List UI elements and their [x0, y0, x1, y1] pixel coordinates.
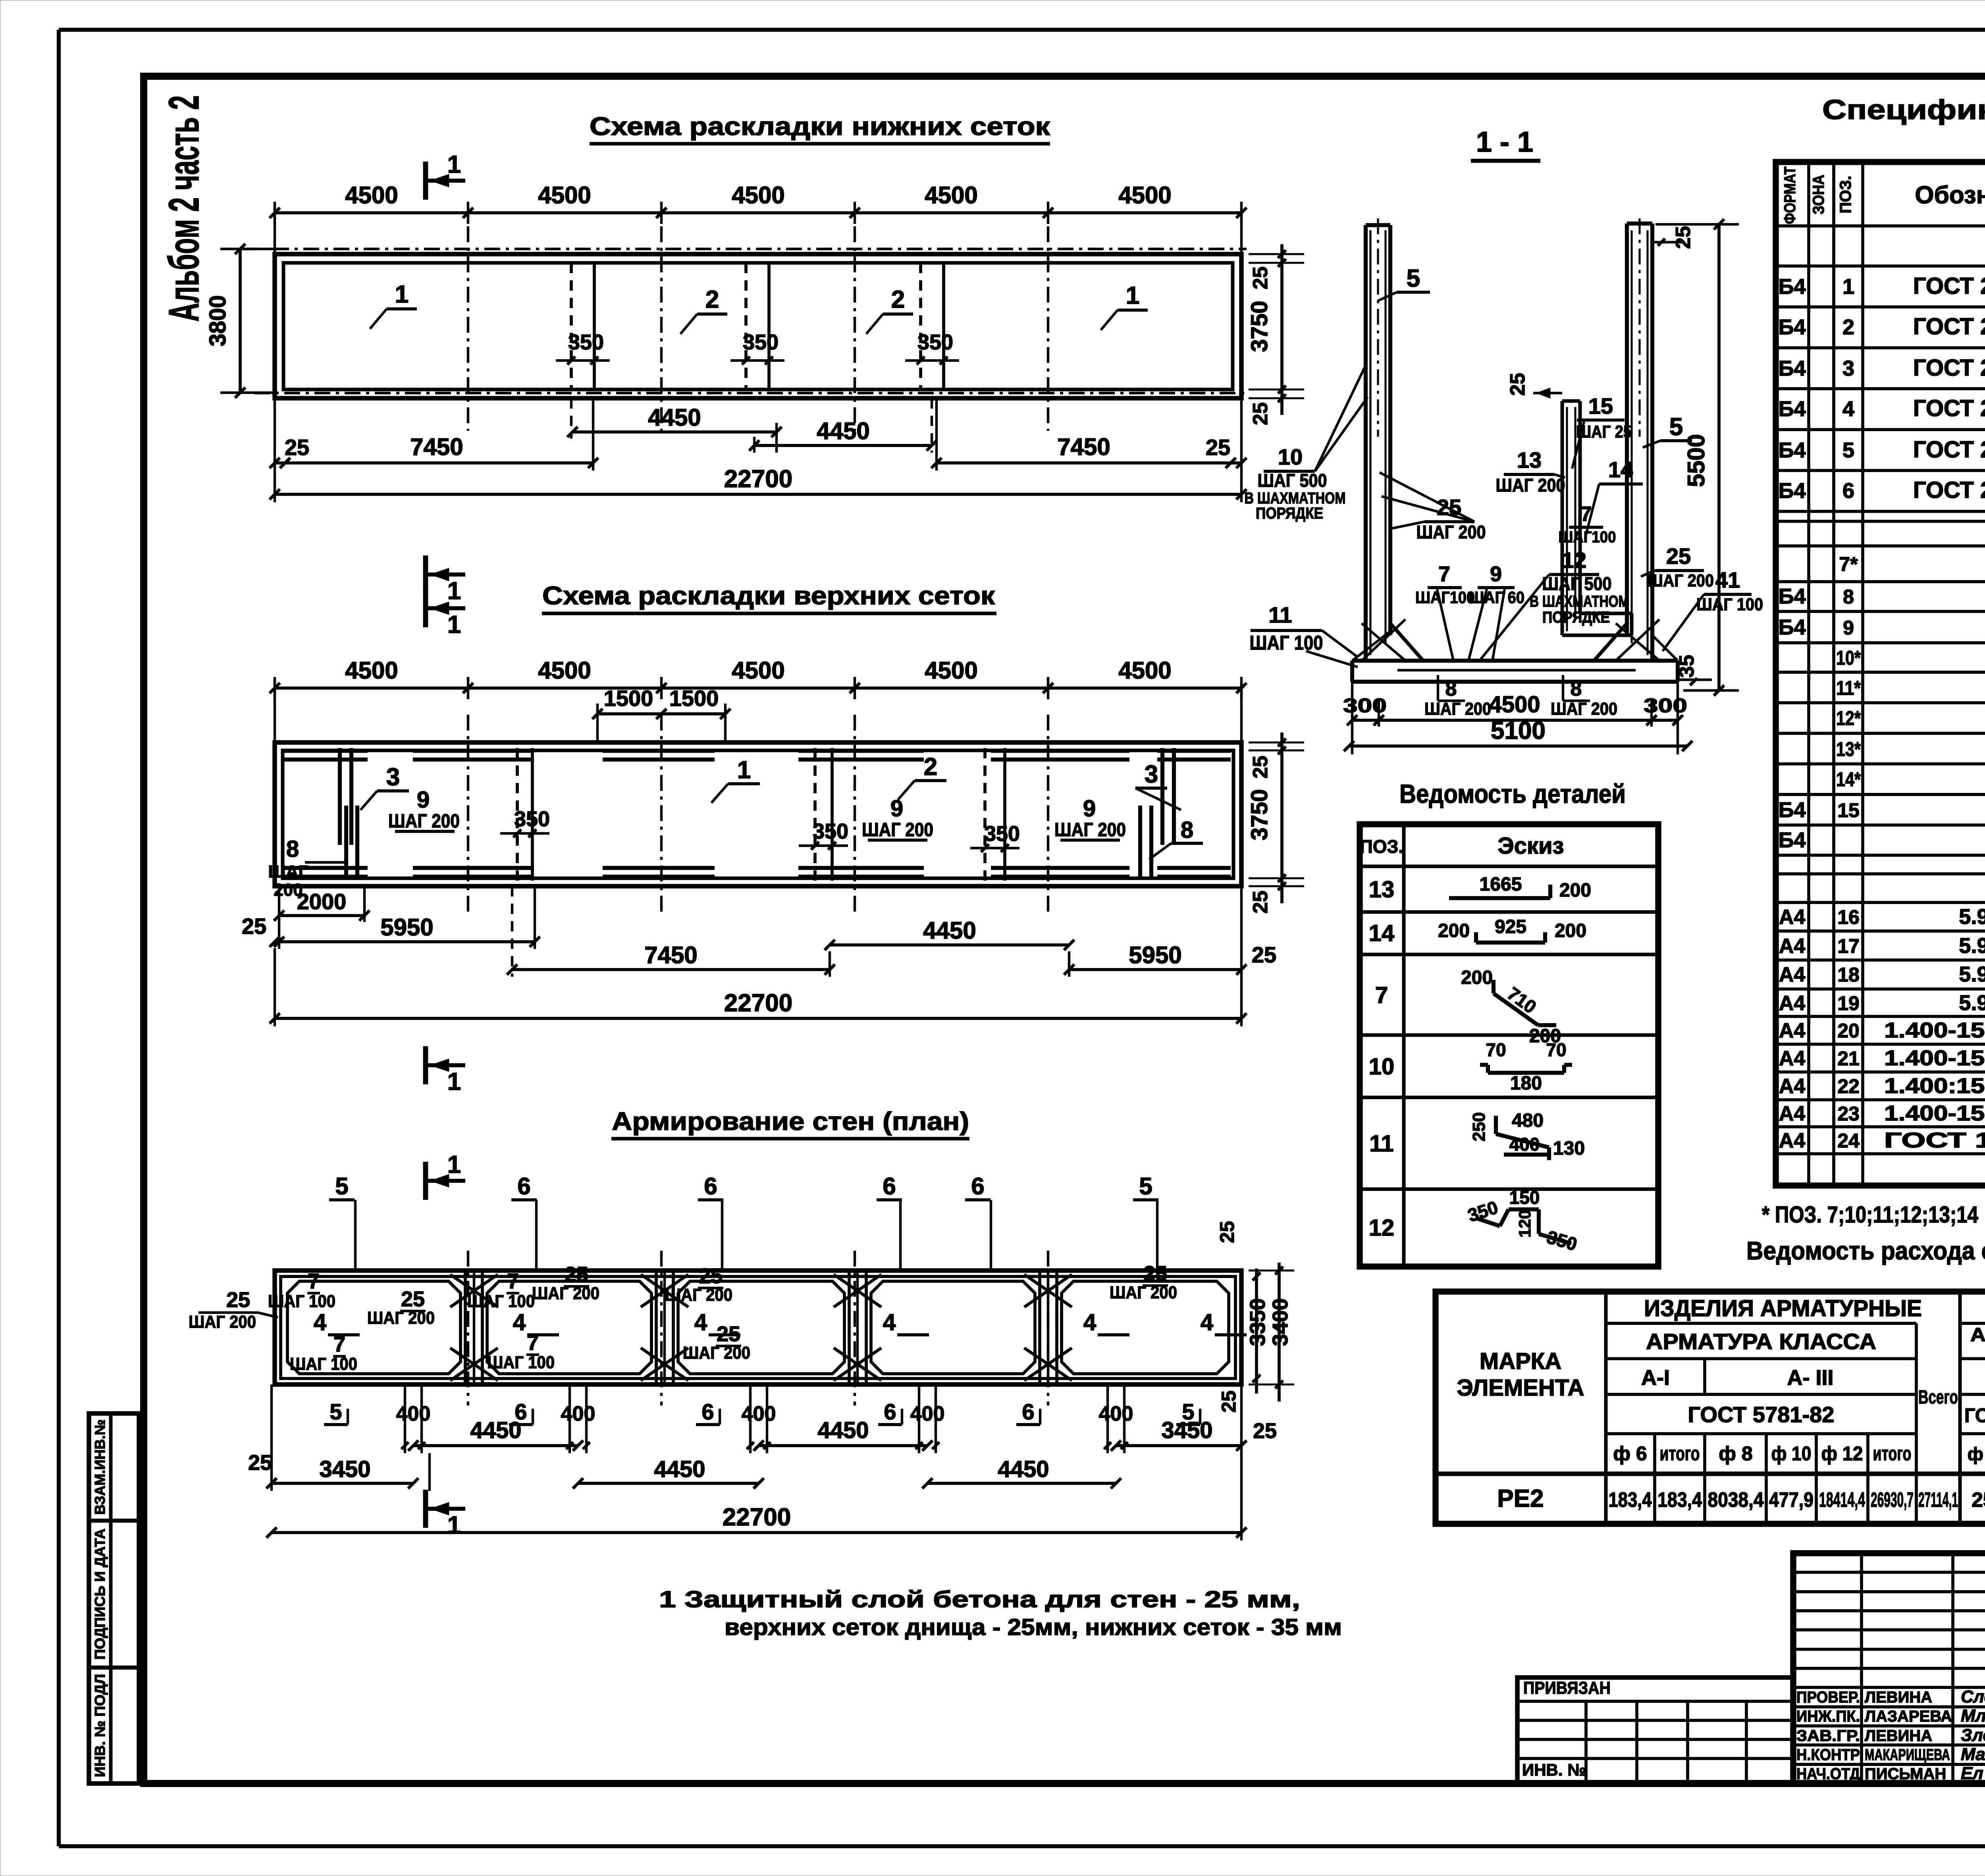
- svg-text:ЛЕВИНА: ЛЕВИНА: [1865, 1689, 1932, 1706]
- svg-text:350: 350: [568, 330, 604, 354]
- svg-text:25: 25: [1666, 544, 1691, 569]
- svg-text:4: 4: [883, 1309, 896, 1335]
- svg-text:итого: итого: [1660, 1442, 1700, 1465]
- svg-text:ШАГ 100: ШАГ 100: [290, 1354, 357, 1374]
- svg-text:8038,4: 8038,4: [1708, 1488, 1764, 1512]
- svg-text:4: 4: [314, 1309, 326, 1335]
- svg-text:А4: А4: [1779, 1102, 1806, 1125]
- svg-text:3400: 3400: [1268, 1298, 1292, 1346]
- svg-text:ПОДПИСЬ И ДАТА: ПОДПИСЬ И ДАТА: [92, 1529, 108, 1660]
- svg-text:РЕ2: РЕ2: [1497, 1485, 1544, 1512]
- svg-text:ШАГ 100: ШАГ 100: [487, 1353, 555, 1372]
- svg-text:11: 11: [1369, 1131, 1393, 1157]
- svg-text:183,4: 183,4: [1657, 1488, 1702, 1512]
- svg-text:МАКАРИЩЕВА: МАКАРИЩЕВА: [1865, 1746, 1950, 1764]
- svg-text:ФОРМАТ: ФОРМАТ: [1781, 167, 1799, 224]
- svg-text:ШАГ100: ШАГ100: [1415, 588, 1475, 607]
- svg-text:350: 350: [813, 819, 848, 843]
- svg-text:Б4: Б4: [1779, 615, 1806, 639]
- svg-text:22700: 22700: [724, 989, 792, 1017]
- svg-text:8: 8: [286, 836, 299, 862]
- svg-text:15: 15: [1837, 799, 1860, 821]
- svg-text:ф 6: ф 6: [1613, 1442, 1647, 1465]
- svg-text:20: 20: [1837, 1020, 1860, 1042]
- svg-text:25: 25: [1252, 942, 1276, 967]
- svg-text:200: 200: [1438, 920, 1470, 941]
- svg-text:7: 7: [308, 1269, 320, 1293]
- svg-text:70: 70: [1486, 1039, 1506, 1060]
- svg-text:ГОСТ 5781-82: ГОСТ 5781-82: [1964, 1404, 1985, 1427]
- svg-text:6: 6: [704, 1173, 717, 1199]
- svg-text:400: 400: [742, 1402, 776, 1425]
- svg-text:ГОСТ 23279-85: ГОСТ 23279-85: [1913, 477, 1985, 503]
- svg-text:18414,4: 18414,4: [1819, 1488, 1865, 1512]
- svg-text:8: 8: [1181, 817, 1193, 843]
- svg-text:1: 1: [395, 281, 409, 308]
- svg-text:5.900-2: 5.900-2: [1959, 905, 1985, 929]
- svg-text:23: 23: [1837, 1103, 1860, 1125]
- svg-text:ШАГ 200: ШАГ 200: [388, 811, 460, 832]
- svg-text:А4: А4: [1779, 906, 1806, 929]
- svg-text:3350: 3350: [1246, 1298, 1270, 1346]
- svg-text:ШАГ 500: ШАГ 500: [1258, 470, 1327, 491]
- svg-text:5: 5: [335, 1173, 348, 1199]
- svg-text:9: 9: [1490, 562, 1502, 586]
- svg-text:25: 25: [1249, 266, 1272, 289]
- svg-text:200: 200: [1555, 920, 1586, 941]
- svg-text:1: 1: [1126, 282, 1139, 309]
- svg-text:1500: 1500: [669, 686, 719, 711]
- svg-text:25: 25: [1249, 756, 1272, 779]
- svg-text:25: 25: [1206, 435, 1230, 460]
- svg-text:4450: 4450: [817, 418, 869, 444]
- svg-text:925: 925: [1495, 916, 1526, 937]
- svg-text:Спецификация к монолитной емко: Спецификация к монолитной емкости РЕ2: [1822, 94, 1985, 125]
- svg-text:ГОСТ 23279-85: ГОСТ 23279-85: [1913, 395, 1985, 421]
- svg-text:1.400:15.81.120-41: 1.400:15.81.120-41: [1884, 1074, 1985, 1098]
- svg-text:25: 25: [248, 1451, 272, 1475]
- svg-text:АРМАТУРА КЛАССА: АРМАТУРА КЛАССА: [1646, 1329, 1876, 1354]
- svg-text:ШАГ: ШАГ: [268, 862, 308, 881]
- svg-text:5.900-2: 5.900-2: [1959, 934, 1985, 958]
- svg-text:25: 25: [1253, 1419, 1277, 1443]
- svg-text:26930,7: 26930,7: [1871, 1488, 1914, 1512]
- svg-text:ШАГ 100: ШАГ 100: [1696, 595, 1763, 614]
- svg-text:ШАГ 100: ШАГ 100: [268, 1292, 335, 1311]
- svg-text:ПОЗ.: ПОЗ.: [1837, 176, 1854, 214]
- svg-text:ШАГ 200: ШАГ 200: [367, 1308, 435, 1328]
- svg-text:4500: 4500: [1118, 657, 1171, 684]
- svg-text:25: 25: [565, 1263, 588, 1286]
- svg-text:А4: А4: [1779, 1075, 1806, 1098]
- svg-text:5: 5: [1407, 265, 1420, 292]
- svg-text:ШАГ100: ШАГ100: [1559, 528, 1616, 546]
- svg-text:130: 130: [1553, 1138, 1585, 1159]
- svg-text:18: 18: [1837, 964, 1860, 986]
- svg-text:ШАГ 200: ШАГ 200: [189, 1312, 256, 1332]
- svg-text:А4: А4: [1779, 1047, 1806, 1070]
- svg-text:Альбом 2 часть 2: Альбом 2 часть 2: [160, 95, 208, 322]
- svg-text:ВЗАМ.ИНВ.№: ВЗАМ.ИНВ.№: [92, 1419, 108, 1515]
- svg-text:9: 9: [1843, 617, 1854, 639]
- svg-text:300: 300: [1343, 694, 1387, 717]
- svg-text:1.400-15.81.130-05: 1.400-15.81.130-05: [1884, 1018, 1985, 1042]
- svg-text:7: 7: [1375, 982, 1388, 1008]
- svg-text:Млог: Млог: [1961, 1706, 1985, 1726]
- svg-text:5.900-2: 5.900-2: [1959, 991, 1985, 1015]
- svg-text:13*: 13*: [1836, 738, 1861, 760]
- svg-text:Б4: Б4: [1779, 798, 1806, 822]
- svg-text:ЛЕВИНА: ЛЕВИНА: [1865, 1727, 1932, 1745]
- svg-text:2: 2: [1842, 315, 1854, 339]
- svg-text:1.400-15.81.120-05: 1.400-15.81.120-05: [1884, 1046, 1985, 1070]
- svg-text:350: 350: [917, 330, 953, 354]
- svg-text:12: 12: [1562, 548, 1586, 573]
- svg-text:ШАГ 100: ШАГ 100: [1250, 632, 1323, 654]
- svg-text:14: 14: [1369, 920, 1395, 946]
- svg-text:Схема раскладки нижних сет: Схема раскладки нижних сеток: [590, 112, 1050, 141]
- svg-text:4500: 4500: [538, 657, 591, 684]
- svg-text:19: 19: [1837, 992, 1860, 1014]
- svg-text:22700: 22700: [723, 1504, 791, 1531]
- svg-text:1.400-15.81 190-05: 1.400-15.81 190-05: [1884, 1101, 1985, 1125]
- svg-text:1: 1: [1842, 275, 1854, 299]
- svg-text:4450: 4450: [654, 1456, 705, 1482]
- svg-text:27114,1: 27114,1: [1918, 1488, 1958, 1512]
- svg-text:Ведомость деталей: Ведомость деталей: [1399, 779, 1626, 808]
- svg-text:НАЧ.ОТД: НАЧ.ОТД: [1796, 1765, 1860, 1783]
- svg-text:350: 350: [743, 330, 779, 354]
- svg-text:ШАГ 200: ШАГ 200: [1647, 571, 1714, 590]
- svg-text:120: 120: [1515, 1210, 1534, 1238]
- svg-text:В ШАХМАТНОМ: В ШАХМАТНОМ: [1530, 593, 1629, 610]
- svg-text:480: 480: [1512, 1110, 1544, 1131]
- svg-text:14*: 14*: [1836, 768, 1861, 791]
- svg-text:3: 3: [1842, 357, 1854, 380]
- svg-text:Ел: Ел: [1961, 1764, 1983, 1783]
- svg-text:4450: 4450: [817, 1417, 869, 1443]
- svg-text:ШАГ 100: ШАГ 100: [467, 1292, 535, 1311]
- svg-text:7450: 7450: [410, 434, 463, 460]
- svg-text:3450: 3450: [1161, 1417, 1212, 1443]
- svg-text:9: 9: [890, 796, 903, 821]
- svg-text:ШАГ 200: ШАГ 200: [1054, 819, 1126, 841]
- svg-text:Обозначение: Обозначение: [1915, 181, 1985, 209]
- svg-text:Эскиз: Эскиз: [1497, 833, 1564, 859]
- svg-text:13: 13: [1517, 447, 1542, 472]
- svg-text:Б4: Б4: [1779, 584, 1806, 608]
- svg-text:200: 200: [1559, 880, 1591, 901]
- svg-text:3750: 3750: [1247, 789, 1272, 840]
- svg-text:25: 25: [699, 1264, 723, 1288]
- svg-text:ШАГ 200: ШАГ 200: [1551, 699, 1617, 719]
- svg-text:А4: А4: [1779, 1129, 1806, 1152]
- svg-text:7*: 7*: [1839, 553, 1858, 575]
- svg-text:ГОСТ 18599-83: ГОСТ 18599-83: [1884, 1128, 1985, 1152]
- svg-text:1: 1: [447, 1151, 461, 1178]
- svg-text:4: 4: [1083, 1309, 1096, 1335]
- svg-text:ПОЗ.: ПОЗ.: [1360, 836, 1403, 857]
- svg-text:4450: 4450: [923, 917, 976, 944]
- svg-text:400: 400: [1099, 1402, 1133, 1425]
- svg-text:ШАГ 200: ШАГ 200: [862, 819, 933, 841]
- svg-text:6: 6: [1022, 1399, 1034, 1424]
- svg-text:4: 4: [694, 1309, 707, 1335]
- svg-text:ПОРЯДКЕ: ПОРЯДКЕ: [1256, 505, 1323, 522]
- svg-text:4500: 4500: [1489, 692, 1540, 717]
- svg-text:9: 9: [417, 787, 430, 813]
- svg-text:41: 41: [1715, 567, 1740, 592]
- svg-text:ЗОНА: ЗОНА: [1810, 175, 1827, 214]
- svg-text:3: 3: [386, 764, 400, 791]
- svg-text:13: 13: [1369, 877, 1395, 902]
- svg-text:Б4: Б4: [1779, 397, 1806, 421]
- svg-text:10*: 10*: [1836, 647, 1861, 669]
- svg-text:180: 180: [1510, 1073, 1542, 1094]
- svg-text:1: 1: [447, 1068, 461, 1095]
- svg-text:итого: итого: [1873, 1442, 1912, 1465]
- svg-text:ПИСЬМАН: ПИСЬМАН: [1865, 1765, 1946, 1783]
- svg-text:4500: 4500: [345, 657, 398, 684]
- svg-text:Б4: Б4: [1779, 315, 1806, 339]
- svg-text:300: 300: [1644, 694, 1687, 717]
- svg-text:25: 25: [1218, 1390, 1240, 1413]
- svg-text:4500: 4500: [1118, 182, 1171, 208]
- svg-text:Мал: Мал: [1961, 1745, 1985, 1764]
- svg-text:1: 1: [447, 611, 461, 638]
- svg-text:25: 25: [1972, 1488, 1985, 1512]
- svg-text:25: 25: [1506, 373, 1529, 396]
- svg-text:Ведомость расхода стали на: Ведомость расхода стали на элемент,кг: [1746, 1236, 1985, 1265]
- svg-text:6: 6: [701, 1399, 714, 1424]
- svg-text:25: 25: [1249, 891, 1272, 914]
- svg-text:2: 2: [924, 753, 937, 781]
- svg-text:ф 12: ф 12: [1821, 1442, 1863, 1465]
- svg-text:6: 6: [884, 1399, 896, 1424]
- svg-text:4500: 4500: [732, 182, 784, 208]
- svg-text:7: 7: [507, 1269, 519, 1293]
- svg-text:25: 25: [226, 1288, 250, 1312]
- svg-text:ГОСТ 23279-85: ГОСТ 23279-85: [1913, 437, 1985, 463]
- svg-text:350: 350: [514, 807, 550, 831]
- svg-text:А-I: А-I: [1641, 1366, 1670, 1390]
- svg-text:ф 8: ф 8: [1719, 1442, 1752, 1465]
- svg-text:5: 5: [1842, 438, 1854, 462]
- svg-text:ПРИВЯЗАН: ПРИВЯЗАН: [1523, 1678, 1611, 1698]
- svg-text:2: 2: [705, 286, 719, 313]
- svg-text:25: 25: [1672, 226, 1695, 249]
- svg-text:4: 4: [1842, 397, 1854, 421]
- svg-text:ЛАЗАРЕВА: ЛАЗАРЕВА: [1865, 1708, 1952, 1725]
- svg-text:25: 25: [285, 435, 309, 460]
- svg-text:ШАГ 200: ШАГ 200: [1416, 522, 1486, 542]
- svg-text:ШАГ 200: ШАГ 200: [665, 1285, 732, 1305]
- svg-text:ЗАВ.ГР.: ЗАВ.ГР.: [1796, 1727, 1860, 1745]
- svg-text:8: 8: [1843, 586, 1854, 608]
- svg-text:12*: 12*: [1836, 707, 1861, 729]
- svg-text:4500: 4500: [925, 657, 977, 684]
- svg-text:24: 24: [1837, 1130, 1860, 1152]
- svg-text:ГОСТ 5781-82: ГОСТ 5781-82: [1688, 1402, 1835, 1427]
- svg-text:1: 1: [447, 1512, 461, 1539]
- svg-text:4: 4: [1201, 1309, 1213, 1335]
- svg-text:1: 1: [447, 577, 461, 605]
- svg-text:2000: 2000: [297, 889, 347, 914]
- svg-text:11: 11: [1268, 602, 1292, 627]
- svg-text:4500: 4500: [732, 657, 784, 684]
- svg-text:200: 200: [1461, 967, 1493, 988]
- svg-text:25: 25: [1216, 1221, 1238, 1243]
- svg-text:Всего: Всего: [1918, 1387, 1958, 1408]
- svg-text:350: 350: [984, 822, 1020, 846]
- svg-text:А- III: А- III: [1787, 1366, 1834, 1390]
- svg-text:ПОРЯДКЕ: ПОРЯДКЕ: [1542, 609, 1610, 626]
- svg-text:ГОСТ 23279-85: ГОСТ 23279-85: [1913, 355, 1985, 381]
- svg-text:25: 25: [242, 914, 266, 939]
- svg-text:Злев: Злев: [1961, 1726, 1985, 1745]
- svg-text:5950: 5950: [1129, 942, 1181, 968]
- svg-text:ф 10: ф 10: [1771, 1442, 1812, 1465]
- svg-text:1665: 1665: [1480, 874, 1522, 895]
- svg-text:ГОСТ 23279-85: ГОСТ 23279-85: [1913, 314, 1985, 339]
- svg-text:6: 6: [883, 1173, 896, 1199]
- svg-text:Б4: Б4: [1779, 828, 1806, 852]
- svg-text:ИНВ. №: ИНВ. №: [1522, 1760, 1586, 1779]
- svg-text:150: 150: [1509, 1187, 1540, 1208]
- svg-text:4500: 4500: [345, 182, 398, 208]
- svg-text:4500: 4500: [925, 182, 977, 208]
- svg-text:5100: 5100: [1491, 717, 1546, 744]
- svg-text:25: 25: [1143, 1262, 1167, 1286]
- svg-text:1: 1: [447, 151, 461, 178]
- svg-text:Б4: Б4: [1779, 357, 1806, 380]
- svg-text:11*: 11*: [1836, 677, 1861, 699]
- svg-text:9: 9: [1083, 796, 1096, 821]
- svg-text:* ПОЗ. 7;10;11;12;13;14: * ПОЗ. 7;10;11;12;13;14: [1762, 1202, 1978, 1228]
- svg-text:ШАГ 500: ШАГ 500: [1542, 573, 1612, 594]
- svg-text:70: 70: [1546, 1039, 1566, 1060]
- svg-text:ШАГ 200: ШАГ 200: [1110, 1283, 1177, 1302]
- svg-text:3450: 3450: [319, 1456, 370, 1482]
- svg-text:10: 10: [1369, 1054, 1395, 1080]
- svg-text:400: 400: [561, 1402, 595, 1425]
- svg-text:АРМАТУРА: АРМАТУРА: [1970, 1325, 1985, 1346]
- svg-text:250: 250: [1469, 1112, 1489, 1141]
- svg-text:4450: 4450: [998, 1456, 1049, 1482]
- svg-text:3750: 3750: [1247, 301, 1272, 352]
- svg-text:183,4: 183,4: [1609, 1488, 1652, 1512]
- svg-text:Б4: Б4: [1779, 438, 1806, 462]
- svg-text:ШАГ 200: ШАГ 200: [1424, 699, 1491, 719]
- svg-text:6: 6: [517, 1173, 530, 1199]
- svg-text:5: 5: [1669, 413, 1683, 441]
- svg-text:1 Защитный слой бетона для сте: 1 Защитный слой бетона для стен - 25 мм,: [659, 1587, 1300, 1612]
- svg-text:А4: А4: [1779, 1019, 1806, 1042]
- svg-text:МАРКА: МАРКА: [1480, 1348, 1561, 1374]
- svg-text:ИЗДЕЛИЯ АРМАТУРНЫЕ: ИЗДЕЛИЯ АРМАТУРНЫЕ: [1644, 1296, 1922, 1321]
- svg-text:6: 6: [971, 1173, 984, 1199]
- svg-text:15: 15: [1588, 393, 1613, 418]
- svg-text:7: 7: [1438, 562, 1450, 586]
- svg-text:ШАГ 200: ШАГ 200: [532, 1284, 599, 1303]
- svg-text:Б4: Б4: [1779, 479, 1806, 503]
- svg-text:4450: 4450: [470, 1417, 521, 1443]
- svg-text:35: 35: [1675, 655, 1698, 678]
- svg-text:4450: 4450: [648, 404, 701, 431]
- svg-text:7450: 7450: [644, 942, 697, 968]
- svg-text:25: 25: [1249, 402, 1272, 425]
- svg-text:3800: 3800: [205, 295, 231, 346]
- svg-text:ИНЖ.ПК.: ИНЖ.ПК.: [1796, 1708, 1860, 1725]
- svg-text:21: 21: [1837, 1047, 1860, 1070]
- svg-text:4: 4: [513, 1309, 526, 1335]
- svg-text:ГОСТ 23279-85: ГОСТ 23279-85: [1913, 273, 1985, 299]
- svg-text:2: 2: [891, 286, 905, 313]
- svg-text:477,9: 477,9: [1769, 1488, 1813, 1512]
- svg-text:5: 5: [330, 1399, 342, 1424]
- svg-text:А4: А4: [1779, 992, 1806, 1015]
- svg-text:ПРОВЕР.: ПРОВЕР.: [1796, 1689, 1860, 1706]
- svg-text:1 - 1: 1 - 1: [1476, 126, 1533, 158]
- svg-text:Схема раскладки верхних сет: Схема раскладки верхних сеток: [542, 581, 995, 610]
- svg-text:А4: А4: [1779, 935, 1806, 958]
- svg-text:ЭЛЕМЕНТА: ЭЛЕМЕНТА: [1457, 1375, 1584, 1401]
- svg-text:Армирование стен (план): Армирование стен (план): [612, 1107, 969, 1136]
- svg-text:5950: 5950: [380, 914, 433, 941]
- svg-text:10: 10: [1278, 444, 1303, 469]
- svg-text:22: 22: [1837, 1075, 1860, 1097]
- svg-text:Н.КОНТР: Н.КОНТР: [1796, 1746, 1860, 1764]
- svg-text:5.900-2: 5.900-2: [1959, 962, 1985, 986]
- svg-text:8: 8: [1571, 677, 1582, 700]
- svg-text:6: 6: [1842, 479, 1854, 503]
- svg-text:ИНВ. № ПОДЛ: ИНВ. № ПОДЛ: [92, 1674, 108, 1777]
- svg-text:400: 400: [396, 1402, 431, 1425]
- svg-text:Б4: Б4: [1779, 275, 1806, 299]
- svg-text:16: 16: [1837, 906, 1860, 928]
- svg-text:1: 1: [737, 756, 751, 784]
- svg-text:7450: 7450: [1057, 434, 1110, 460]
- svg-text:А4: А4: [1779, 963, 1806, 986]
- svg-text:17: 17: [1837, 935, 1860, 957]
- svg-text:25: 25: [401, 1287, 425, 1311]
- svg-text:Слевик: Слевик: [1961, 1687, 1985, 1706]
- svg-text:ШАГ 60: ШАГ 60: [1469, 588, 1524, 607]
- svg-text:400: 400: [910, 1402, 945, 1425]
- svg-text:400: 400: [1509, 1134, 1540, 1155]
- svg-text:8: 8: [1445, 677, 1457, 700]
- svg-text:1500: 1500: [604, 686, 653, 711]
- svg-text:верхних сеток днища - 25мм, ни: верхних сеток днища - 25мм, нижних сеток…: [725, 1614, 1342, 1640]
- svg-text:7: 7: [1580, 503, 1592, 526]
- svg-text:22700: 22700: [724, 465, 792, 493]
- svg-text:14: 14: [1608, 457, 1633, 482]
- svg-text:5: 5: [1139, 1173, 1152, 1199]
- svg-text:ШАГ 200: ШАГ 200: [683, 1343, 750, 1363]
- svg-text:3: 3: [1145, 761, 1158, 788]
- svg-text:ф 8: ф 8: [1968, 1444, 1985, 1464]
- svg-text:4500: 4500: [538, 182, 591, 208]
- svg-text:12: 12: [1369, 1215, 1395, 1241]
- svg-text:ШАГ 200: ШАГ 200: [1496, 475, 1565, 496]
